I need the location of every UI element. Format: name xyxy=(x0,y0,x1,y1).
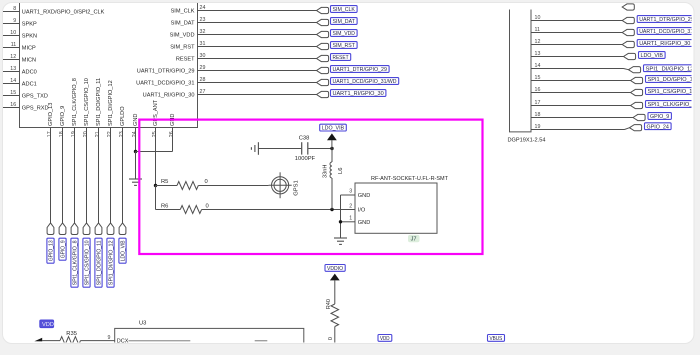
svg-text:19: 19 xyxy=(535,124,541,130)
wire to R6 xyxy=(156,209,181,211)
wire pins 3-1 to ground xyxy=(340,195,342,238)
svg-text:13: 13 xyxy=(535,51,541,57)
wire GND pins 24-26 xyxy=(136,151,173,153)
port GPIO_9 xyxy=(59,223,66,235)
port GPIO_24 xyxy=(630,125,642,131)
svg-text:SIM_VDD: SIM_VDD xyxy=(170,33,195,39)
svg-text:3: 3 xyxy=(349,189,352,195)
svg-text:GPIO_9: GPIO_9 xyxy=(61,240,67,258)
svg-text:18: 18 xyxy=(535,112,541,118)
net label SIM_RST xyxy=(331,42,358,50)
svg-text:GPIO_13: GPIO_13 xyxy=(49,240,55,261)
resistor R40 zigzag xyxy=(331,304,339,327)
wire pin 21 down xyxy=(98,128,100,223)
svg-text:RF-ANT-SOCKET-U.FL-R-SMT: RF-ANT-SOCKET-U.FL-R-SMT xyxy=(371,176,449,182)
junction pin24/pin26 GND xyxy=(134,150,137,153)
wire pin 28 to port xyxy=(197,82,317,84)
svg-text:15: 15 xyxy=(535,75,541,81)
svg-text:0: 0 xyxy=(205,179,208,185)
svg-text:16: 16 xyxy=(10,102,16,108)
ground GND1 xyxy=(129,179,142,185)
port SPI1_DO/GPIO_11 xyxy=(95,223,102,235)
svg-text:RESET: RESET xyxy=(176,57,195,63)
RF connector GPS1 xyxy=(269,172,292,198)
svg-text:SIM_CLK: SIM_CLK xyxy=(171,9,195,15)
svg-text:UART1_RXD/GPIO_0/SPI2_CLK: UART1_RXD/GPIO_0/SPI2_CLK xyxy=(22,10,105,16)
wire pin 19 down xyxy=(74,128,76,223)
ground at J7 xyxy=(334,238,347,244)
svg-text:14: 14 xyxy=(10,78,16,84)
port GPIO_13 xyxy=(47,223,54,235)
wire R6 to J7 pin 2 xyxy=(202,209,355,211)
wire C38 to node xyxy=(308,148,332,150)
svg-text:1: 1 xyxy=(349,216,352,222)
svg-text:SPI1_DO/GPIO_11: SPI1_DO/GPIO_11 xyxy=(97,240,103,285)
wire pin 19 jog xyxy=(625,128,630,130)
wire pin 17 down xyxy=(50,128,52,223)
resistor R5 zigzag xyxy=(177,182,198,190)
net label GPIO_24 (header) xyxy=(645,123,672,131)
svg-text:GPS_ANT: GPS_ANT xyxy=(153,99,159,126)
svg-text:R5: R5 xyxy=(161,179,168,185)
svg-text:UART1_DTR/GPIO_29: UART1_DTR/GPIO_29 xyxy=(137,69,195,75)
svg-text:SPI1_DI/GPIO_12: SPI1_DI/GPIO_12 xyxy=(109,240,115,285)
net label SPI1_CLK/GPIO_8 xyxy=(71,238,79,287)
port SIM_VDD xyxy=(317,31,329,37)
svg-text:10: 10 xyxy=(10,30,16,36)
svg-text:13: 13 xyxy=(10,66,16,72)
wire R35 to U3 pin 9 xyxy=(81,340,115,342)
svg-text:UART1_DCD/GPIO_31/WD: UART1_DCD/GPIO_31/WD xyxy=(639,29,700,35)
port pin 9 xyxy=(622,4,634,10)
svg-text:16: 16 xyxy=(535,87,541,93)
wire pin 11 xyxy=(3,47,20,49)
svg-text:17: 17 xyxy=(535,100,541,106)
wire pin 19 xyxy=(531,129,625,131)
wire pin 12 xyxy=(531,44,622,46)
power arrow LDO_VIB xyxy=(327,133,337,140)
net label GPIO_9 xyxy=(59,238,67,260)
port UART1_DCD/GPIO_31/WD xyxy=(622,29,634,35)
net label LDO_VIB (header) xyxy=(639,52,666,60)
svg-text:GPIO_24: GPIO_24 xyxy=(647,124,669,130)
svg-text:UART1_DTR/GPIO_29: UART1_DTR/GPIO_29 xyxy=(333,67,387,73)
wire arrow to R35 xyxy=(42,340,60,342)
off-page arrow xyxy=(34,338,42,342)
port SPI1_DI/GPIO_12 xyxy=(629,67,641,73)
net label VDD xyxy=(378,335,392,343)
wire pin 15 xyxy=(531,80,631,82)
port GPIO_9 xyxy=(633,114,645,120)
wire J7 pin 3 stub xyxy=(341,194,356,196)
wire U3 inner line 2 xyxy=(255,340,268,342)
designator J7 xyxy=(408,235,420,243)
wire pin 14 xyxy=(531,68,624,70)
svg-text:MICP: MICP xyxy=(22,46,36,52)
wire pin 11 xyxy=(531,32,622,34)
svg-text:30: 30 xyxy=(200,53,206,59)
port LDO_VIB xyxy=(624,53,636,59)
net label SIM_CLK xyxy=(331,6,358,14)
net label VBUS xyxy=(488,335,505,343)
svg-text:L6: L6 xyxy=(338,168,344,174)
svg-text:8: 8 xyxy=(13,6,16,12)
svg-text:GPIO_13: GPIO_13 xyxy=(48,103,54,126)
net label VDD (selected) xyxy=(40,320,54,328)
wire pin 29 to port xyxy=(197,70,317,72)
net label UART1_RI/GPIO_30 (header) xyxy=(637,40,692,48)
svg-text:12: 12 xyxy=(10,54,16,60)
svg-text:R6: R6 xyxy=(161,203,168,209)
wire L6 to R6 row xyxy=(331,178,333,210)
svg-text:R40: R40 xyxy=(326,299,332,309)
svg-text:14: 14 xyxy=(535,63,541,69)
svg-text:29: 29 xyxy=(200,65,206,71)
svg-text:GPS_TXD: GPS_TXD xyxy=(22,94,48,100)
port SIM_RST xyxy=(317,43,329,49)
svg-text:SPI1_CLK/GPIO_8: SPI1_CLK/GPIO_8 xyxy=(73,240,79,285)
port SIM_DAT xyxy=(317,19,329,25)
junction C38 / L6 / LDO_VIB xyxy=(330,147,333,150)
net label UART1_DCD/GPIO_31/WD xyxy=(331,78,399,86)
resistor R35 zigzag xyxy=(60,337,81,345)
port SPI1_DO/GPIO_11 xyxy=(631,77,643,83)
wire pin 32 to port xyxy=(197,34,317,36)
svg-text:SPI1_CS/GPIO_10: SPI1_CS/GPIO_10 xyxy=(648,89,696,95)
junction GPS_ANT / R5 / R6 xyxy=(154,184,157,187)
wire pin 18 down xyxy=(62,128,64,223)
wire pin 31 to port xyxy=(197,46,317,48)
net label SIM_DAT xyxy=(331,18,358,26)
wire node to L6 xyxy=(331,149,333,163)
svg-text:11: 11 xyxy=(535,27,541,33)
svg-text:SPI1_DI/GPIO_12: SPI1_DI/GPIO_12 xyxy=(108,80,114,126)
wire pin 26 GND down xyxy=(172,128,174,152)
svg-text:SPI1_CLK/GPIO_8: SPI1_CLK/GPIO_8 xyxy=(648,102,696,108)
svg-text:LDO_VIB: LDO_VIB xyxy=(641,53,664,59)
svg-text:LDO_VIB: LDO_VIB xyxy=(121,240,127,261)
wire pin 23 to port xyxy=(197,22,317,24)
wire pin 14 xyxy=(3,83,20,85)
svg-text:VDD: VDD xyxy=(42,322,54,328)
wire power stem xyxy=(331,140,333,148)
net label LDO_VIB xyxy=(119,238,127,263)
port SPI1_CLK/GPIO_8 xyxy=(71,223,78,235)
svg-text:UART1_DCD/GPIO_31/WD: UART1_DCD/GPIO_31/WD xyxy=(333,79,397,85)
port UART1_DTR/GPIO_29 xyxy=(622,17,634,23)
svg-text:12: 12 xyxy=(535,39,541,45)
svg-text:33nH: 33nH xyxy=(322,165,328,178)
svg-text:ADC0: ADC0 xyxy=(22,70,37,76)
IC U3 body xyxy=(115,328,304,355)
port RESET xyxy=(317,55,329,61)
wire pin 13 xyxy=(531,56,624,58)
svg-text:SPKP: SPKP xyxy=(22,22,37,28)
net label SPI1_DO/GPIO_11 xyxy=(95,238,103,287)
net label UART1_DTR/GPIO_29 (header) xyxy=(637,16,696,24)
svg-text:UART1_RI/GPIO_30: UART1_RI/GPIO_30 xyxy=(143,93,195,99)
svg-text:0: 0 xyxy=(328,337,334,340)
svg-text:SIM_CLK: SIM_CLK xyxy=(333,7,356,13)
net label UART1_DCD/GPIO_31/WD (header) xyxy=(637,28,700,35)
wire pin 16 xyxy=(531,92,631,94)
net label VDDIO power xyxy=(325,265,345,273)
net label UART1_RI/GPIO_30 xyxy=(331,90,386,98)
net label SPI1_CS/GPIO_10 xyxy=(83,238,91,287)
wire to R5 xyxy=(156,185,178,187)
port SPI1_DI/GPIO_12 xyxy=(107,223,114,235)
wire J7 pin 1 stub xyxy=(341,221,356,223)
svg-text:LDO_VIB: LDO_VIB xyxy=(322,126,345,132)
port SPI1_CLK/GPIO_8 xyxy=(631,102,643,108)
svg-text:SPI1_CLK/GPIO_8: SPI1_CLK/GPIO_8 xyxy=(72,78,78,126)
svg-text:VDDIO: VDDIO xyxy=(327,266,344,272)
svg-text:UART1_RI/GPIO_30: UART1_RI/GPIO_30 xyxy=(333,91,384,97)
svg-text:J7: J7 xyxy=(411,237,417,243)
ground at C38 xyxy=(251,142,258,155)
wire pin 17 xyxy=(531,105,631,107)
svg-text:GPLDO: GPLDO xyxy=(120,106,126,126)
svg-text:GPIO_9: GPIO_9 xyxy=(60,106,66,126)
wire pin 9 xyxy=(3,23,20,25)
highlight box (magenta) xyxy=(139,120,482,254)
svg-text:SPI1_DO/GPIO_11: SPI1_DO/GPIO_11 xyxy=(648,77,696,83)
svg-text:U3: U3 xyxy=(139,321,146,327)
wire pin 10 xyxy=(3,35,20,37)
port LDO_VIB xyxy=(119,223,126,235)
port UART1_RI/GPIO_30 xyxy=(317,91,329,97)
svg-text:2: 2 xyxy=(349,203,352,209)
power arrow VDDIO xyxy=(330,274,340,281)
wire down to R6 row xyxy=(155,186,157,210)
wire pin 24 to port xyxy=(197,10,317,12)
net label LDO_VIB power xyxy=(320,124,347,132)
wire pin 14 jog xyxy=(624,69,629,70)
wire pin 30 to port xyxy=(197,58,317,60)
connector DGP19X1-2.54 body xyxy=(510,10,532,132)
wire pin 24 GND down xyxy=(135,128,137,152)
svg-text:GPIO_9: GPIO_9 xyxy=(650,114,669,120)
wire to ground xyxy=(135,152,137,180)
svg-text:SPKN: SPKN xyxy=(22,34,37,40)
svg-text:SPI1_CS/GPIO_10: SPI1_CS/GPIO_10 xyxy=(85,240,91,285)
svg-text:0: 0 xyxy=(206,203,209,209)
svg-text:SIM_RST: SIM_RST xyxy=(170,45,195,51)
svg-text:GND: GND xyxy=(358,193,370,199)
svg-text:SIM_DAT: SIM_DAT xyxy=(171,21,195,27)
junction pin1 GND xyxy=(339,220,342,223)
svg-text:VBUS: VBUS xyxy=(490,336,503,342)
connector J7 RF-ANT-SOCKET-U.FL-R-SMT body xyxy=(355,183,437,233)
junction L6 bottom / R6 row xyxy=(330,208,333,211)
net label SIM_VDD xyxy=(331,30,358,37)
svg-text:10: 10 xyxy=(535,15,541,21)
wire pin 20 down xyxy=(86,128,88,223)
net label GPIO_9 (header) xyxy=(648,113,671,121)
wire pin 13 xyxy=(3,71,20,73)
svg-text:VDD: VDD xyxy=(380,336,390,342)
svg-text:SPI1_CS/GPIO_10: SPI1_CS/GPIO_10 xyxy=(84,78,90,126)
svg-text:GND: GND xyxy=(358,220,370,226)
wire pin 10 xyxy=(531,20,622,22)
wire pin 22 down xyxy=(110,128,112,223)
port UART1_DCD/GPIO_31/WD xyxy=(317,79,329,85)
wire pin 25 GPS_ANT down xyxy=(155,128,157,186)
wire VDDIO to R40 xyxy=(334,280,336,304)
svg-text:DGP19X1-2.54: DGP19X1-2.54 xyxy=(508,138,546,144)
net label SPI1_CLK/GPIO_8 (header) xyxy=(646,101,698,109)
wire R5 to GPS1 xyxy=(198,185,268,187)
svg-text:28: 28 xyxy=(200,77,206,83)
svg-text:24: 24 xyxy=(200,5,206,11)
net label GPIO_13 xyxy=(47,238,55,263)
svg-text:SIM_DAT: SIM_DAT xyxy=(333,19,356,25)
wire ground to C38 xyxy=(258,148,301,150)
svg-text:11: 11 xyxy=(11,42,17,48)
svg-text:9: 9 xyxy=(13,18,16,24)
svg-text:23: 23 xyxy=(200,17,206,23)
capacitor C38 xyxy=(302,142,308,154)
wire pin 18 xyxy=(531,117,633,119)
port SPI1_CS/GPIO_10 xyxy=(631,89,643,95)
svg-text:MICN: MICN xyxy=(22,58,36,64)
svg-text:C38: C38 xyxy=(299,136,310,142)
IC module U? body (top edge off-canvas) xyxy=(20,3,198,128)
port UART1_RI/GPIO_30 xyxy=(622,41,634,47)
svg-text:UART1_DTR/GPIO_29: UART1_DTR/GPIO_29 xyxy=(639,17,693,23)
svg-text:15: 15 xyxy=(10,90,16,96)
wire pin 12 xyxy=(3,59,20,61)
svg-text:UART1_DCD/GPIO_31: UART1_DCD/GPIO_31 xyxy=(136,81,194,87)
svg-text:SPI1_DI/GPIO_12: SPI1_DI/GPIO_12 xyxy=(646,66,694,72)
net label SPI1_DO/GPIO_11 (header) xyxy=(646,76,698,84)
svg-text:31: 31 xyxy=(200,41,206,47)
svg-text:1000PF: 1000PF xyxy=(295,156,316,162)
wire R40 down xyxy=(334,327,336,345)
svg-text:SPI1_DO/GPIO_11: SPI1_DO/GPIO_11 xyxy=(96,78,102,126)
wire pin 27 to port xyxy=(197,94,317,96)
net label SPI1_CS/GPIO_10 (header) xyxy=(646,88,698,96)
svg-text:R35: R35 xyxy=(66,331,77,337)
net label RESET xyxy=(331,54,351,62)
svg-text:9: 9 xyxy=(108,335,111,341)
wire pin 8 xyxy=(3,11,20,13)
port UART1_DTR/GPIO_29 xyxy=(317,67,329,73)
wire pin 23 down xyxy=(122,128,124,223)
port SPI1_CS/GPIO_10 xyxy=(83,223,90,235)
svg-text:RESET: RESET xyxy=(333,55,349,61)
svg-text:GPS1: GPS1 xyxy=(294,180,300,195)
wire pin 16 xyxy=(3,107,20,109)
svg-text:SIM_RST: SIM_RST xyxy=(333,43,356,49)
svg-text:I/O: I/O xyxy=(358,208,366,214)
net label SPI1_DI/GPIO_12 xyxy=(107,238,115,287)
net label SPI1_DI/GPIO_12 (header) xyxy=(644,65,696,73)
svg-text:GPS_RXD: GPS_RXD xyxy=(22,106,49,112)
port SIM_CLK xyxy=(317,7,329,13)
net label UART1_DTR/GPIO_29 xyxy=(331,66,390,74)
resistor R6 zigzag xyxy=(180,206,201,214)
wire U3 inner line xyxy=(129,340,191,342)
svg-text:SIM_VDD: SIM_VDD xyxy=(333,31,355,37)
svg-text:27: 27 xyxy=(200,89,206,95)
wire pin 15 xyxy=(3,95,20,97)
svg-text:32: 32 xyxy=(200,29,206,35)
svg-text:ADC1: ADC1 xyxy=(22,82,37,88)
svg-text:UART1_RI/GPIO_30: UART1_RI/GPIO_30 xyxy=(639,41,690,47)
